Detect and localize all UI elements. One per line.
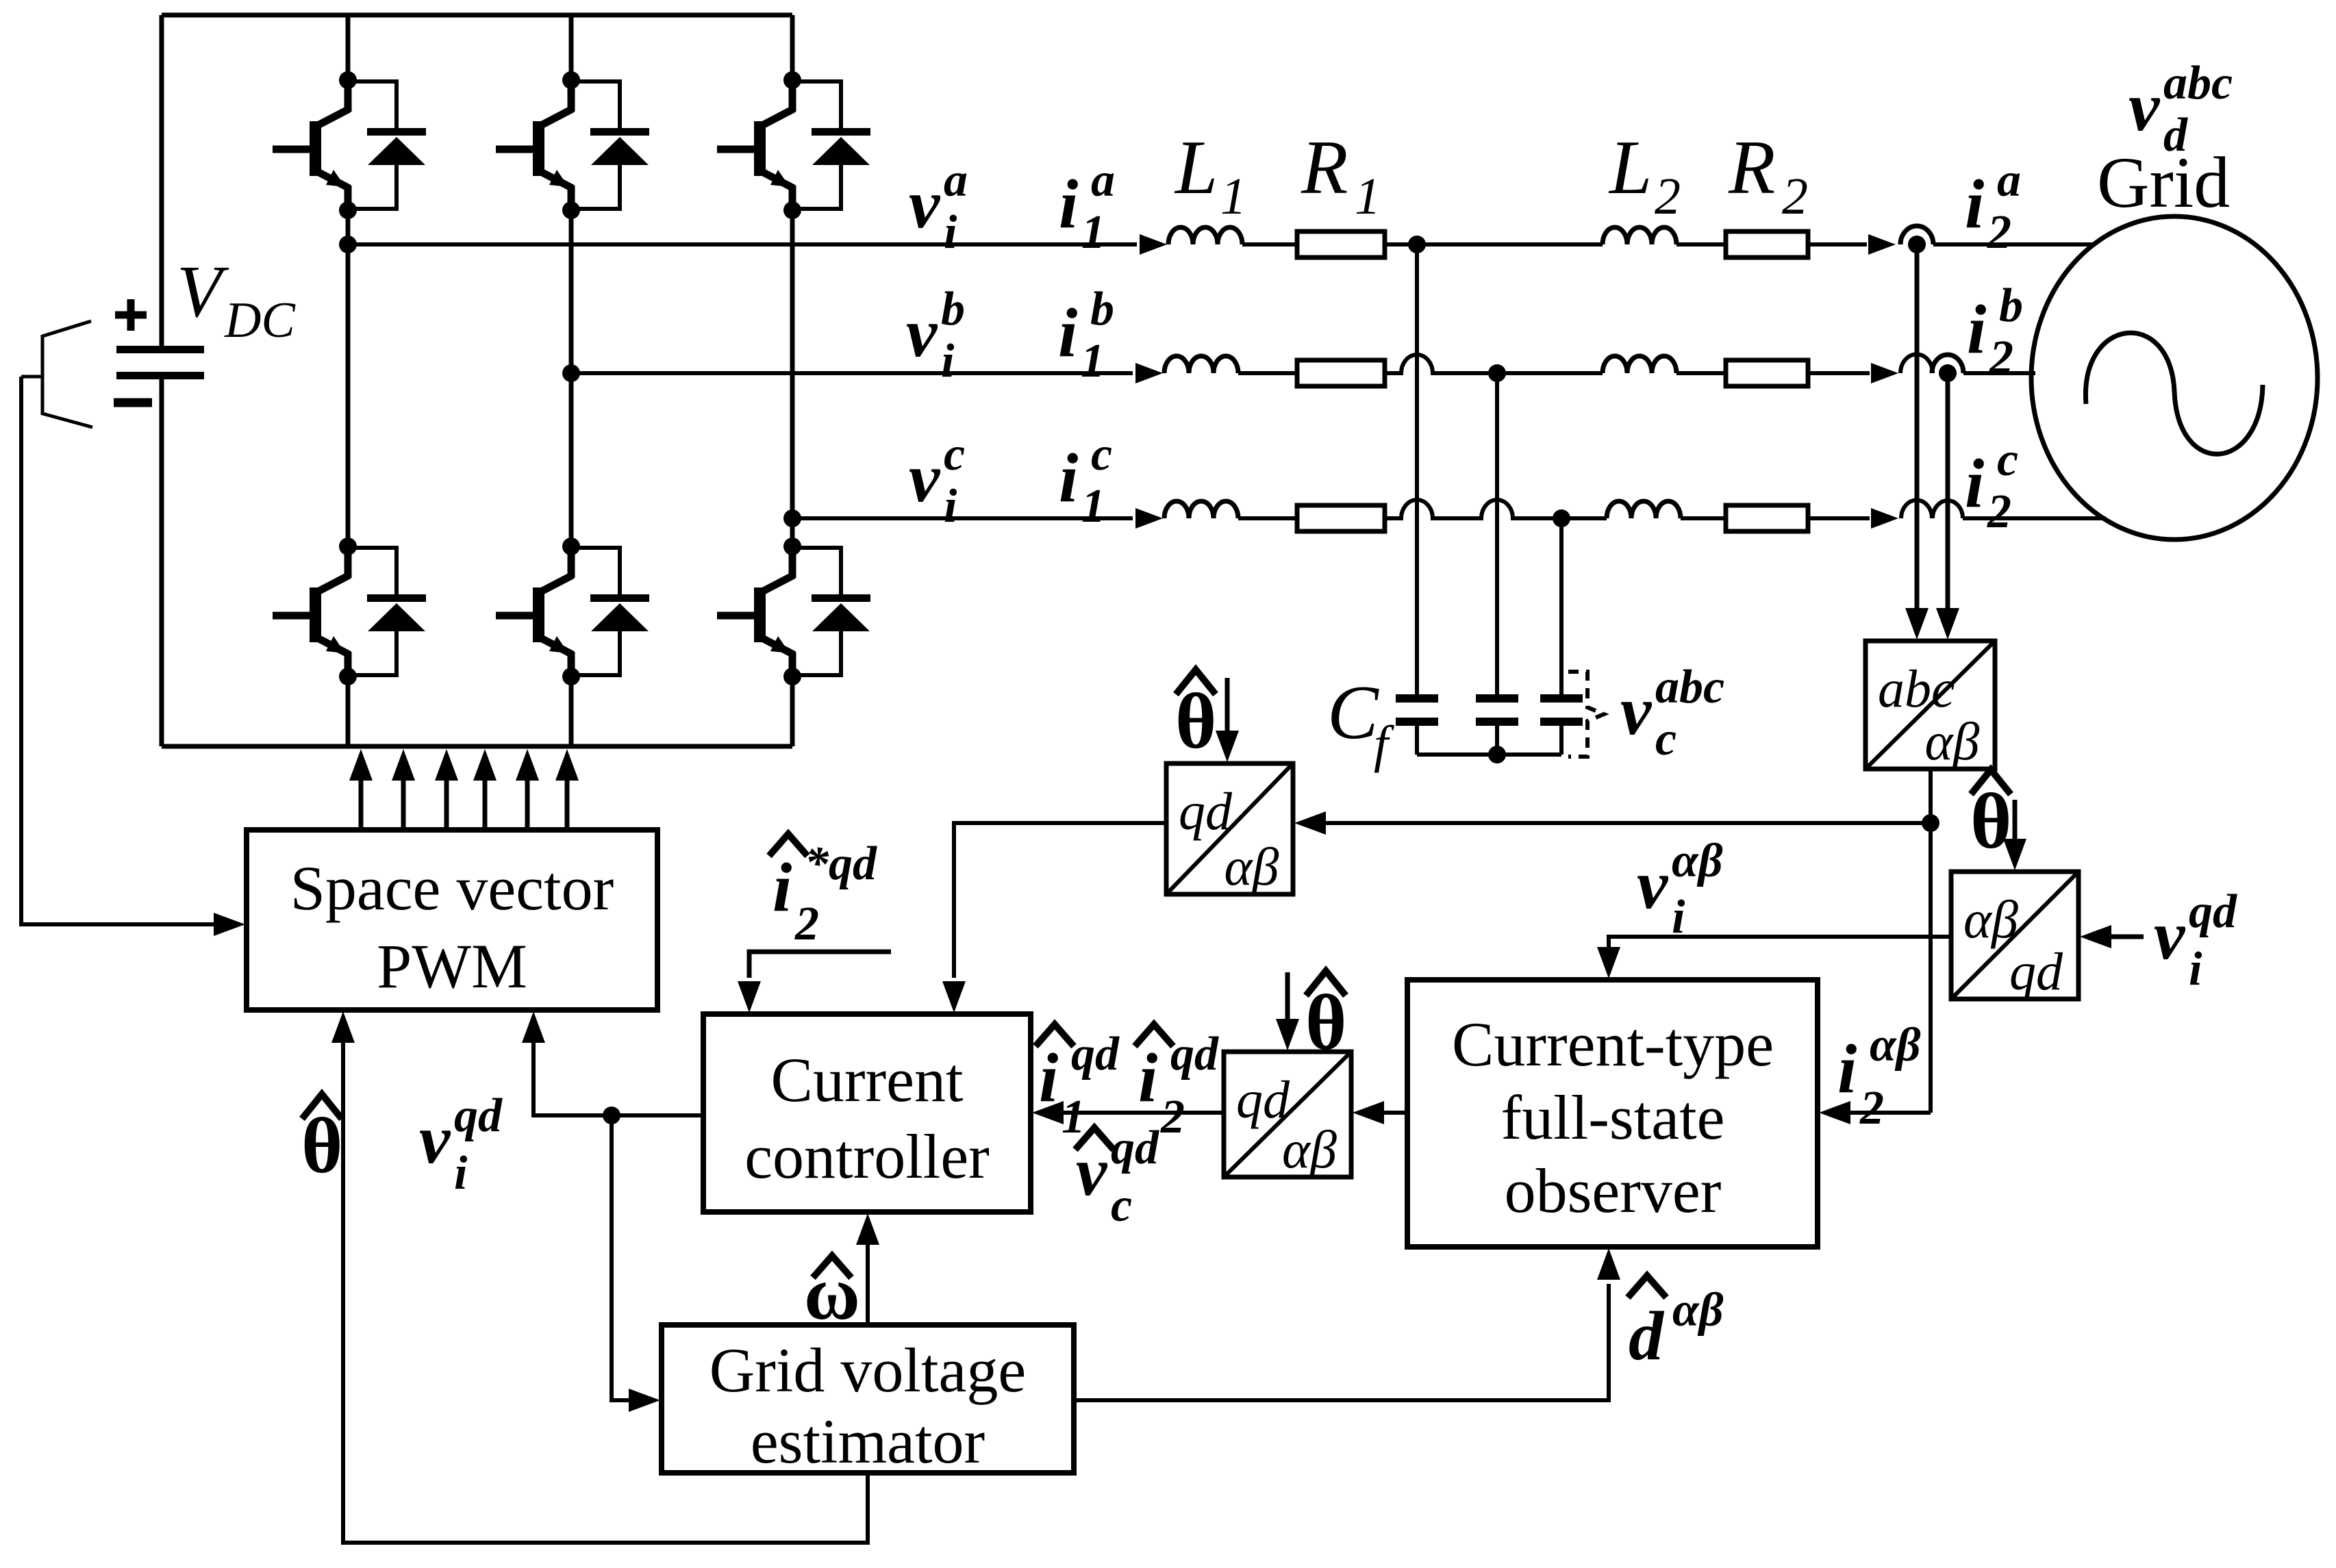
resistor R1 phase a bbox=[1297, 231, 1385, 257]
svg-text:2: 2 bbox=[1160, 1091, 1185, 1143]
svg-text:L: L bbox=[1608, 125, 1652, 210]
svg-text:i: i bbox=[1059, 166, 1078, 243]
transform block qd to alpha-beta (i2 feedback) bbox=[1166, 763, 1293, 896]
svg-text:c: c bbox=[1997, 433, 2018, 486]
wire phase b L1-R1 bbox=[1238, 371, 1297, 375]
label i_1^b bbox=[1058, 283, 1114, 388]
wire phase b node-L2 bbox=[1497, 371, 1603, 375]
svg-text:αβ: αβ bbox=[1963, 889, 2018, 949]
wire leg c upper bbox=[790, 15, 795, 80]
node abc-block output junction bbox=[1922, 814, 1939, 832]
wire gate signal 3 from PWM bbox=[435, 749, 458, 830]
wire node c to Cf bbox=[1559, 518, 1563, 694]
inductor L2 phase b bbox=[1603, 356, 1676, 373]
svg-text:v: v bbox=[2128, 68, 2161, 146]
svg-text:i: i bbox=[1138, 1039, 1157, 1117]
svg-text:v: v bbox=[909, 166, 941, 243]
label v_d^abc bbox=[2128, 57, 2233, 162]
wire phase b L2-R2 bbox=[1676, 371, 1726, 375]
wire observer to qdab2 bbox=[1353, 1101, 1407, 1124]
transform block alpha-beta to qd bbox=[1951, 872, 2078, 1001]
label + polarity bbox=[115, 299, 147, 331]
svg-text:abc: abc bbox=[2163, 57, 2233, 110]
svg-text:full-state: full-state bbox=[1501, 1083, 1725, 1152]
label i_2^a bbox=[1965, 154, 2021, 259]
label v_i^a bbox=[909, 154, 968, 259]
svg-text:i: i bbox=[2189, 943, 2202, 996]
wire phase b R2 to sensor with hop bbox=[1808, 354, 1933, 383]
wire i_2*qd stub into controller bbox=[738, 952, 891, 1013]
block space vector PWM bbox=[247, 830, 657, 1010]
svg-text:qd: qd bbox=[2189, 885, 2237, 938]
label v_i^b bbox=[906, 283, 965, 388]
transistor Q1 with antiparallel diode D1 (top, phase a) bbox=[273, 71, 426, 219]
svg-text:qd: qd bbox=[1170, 1028, 1219, 1080]
svg-text:i: i bbox=[1672, 891, 1685, 944]
svg-text:i: i bbox=[1039, 1039, 1058, 1117]
svg-text:L: L bbox=[1174, 125, 1218, 210]
wire phase c R2 to grid with hops bbox=[1808, 500, 2106, 529]
wire abc-block output down bbox=[1929, 769, 1933, 1113]
node i2a measurement bbox=[1908, 236, 1926, 253]
svg-text:1: 1 bbox=[1081, 480, 1105, 533]
svg-text:abc: abc bbox=[1878, 659, 1955, 718]
svg-text:controller: controller bbox=[744, 1122, 990, 1191]
block grid voltage estimator bbox=[662, 1325, 1074, 1476]
wire leg b middle bbox=[569, 212, 574, 546]
svg-text:αβ: αβ bbox=[1282, 1120, 1337, 1179]
wire Cf common bus bbox=[1417, 753, 1561, 757]
current sensor i2b hump bbox=[1932, 355, 1963, 373]
wire qdab2 to current controller bbox=[1032, 1101, 1224, 1124]
wire phase a inverter to L1 bbox=[348, 234, 1167, 255]
wire node a to Cf bbox=[1415, 244, 1419, 694]
svg-text:v: v bbox=[2154, 897, 2186, 974]
svg-text:c: c bbox=[1091, 428, 1112, 481]
wire leg a lower bbox=[346, 678, 351, 746]
svg-text:C: C bbox=[1327, 670, 1379, 755]
wire phase a L2-R2 bbox=[1676, 242, 1726, 246]
svg-text:i: i bbox=[944, 206, 957, 259]
label i_1^a bbox=[1059, 154, 1115, 259]
svg-text:b: b bbox=[1090, 283, 1114, 336]
svg-text:i: i bbox=[944, 480, 957, 533]
svg-text:2: 2 bbox=[1859, 1082, 1884, 1135]
svg-text:qd: qd bbox=[1071, 1028, 1120, 1080]
wire leg c lower bbox=[790, 678, 795, 746]
node v_i^qd junction bbox=[603, 1107, 620, 1124]
wire v_i^qd controller to PWM bbox=[522, 1011, 703, 1115]
node phase c output bbox=[783, 509, 801, 527]
svg-text:αβ: αβ bbox=[1925, 711, 1980, 771]
svg-text:1: 1 bbox=[1220, 168, 1246, 225]
wire phase c inverter to L1 bbox=[792, 508, 1163, 529]
inductor L1 phase b bbox=[1164, 356, 1238, 373]
svg-text:R: R bbox=[1728, 125, 1775, 210]
wire leg b upper bbox=[569, 15, 574, 80]
wire DC+ top bus bbox=[162, 13, 792, 18]
wire gate signal 5 from PWM bbox=[516, 749, 539, 830]
wire d-hat estimator to observer bbox=[1074, 1248, 1620, 1400]
svg-text:DC: DC bbox=[224, 292, 296, 349]
svg-text:αβ: αβ bbox=[1672, 1284, 1724, 1337]
wire phase c L2-R2 bbox=[1681, 516, 1726, 520]
svg-text:αβ: αβ bbox=[1224, 837, 1279, 896]
label i_2^b bbox=[1967, 279, 2023, 384]
svg-text:c: c bbox=[1655, 713, 1676, 766]
resistor R1 phase b bbox=[1297, 360, 1385, 386]
svg-text:a: a bbox=[1997, 154, 2021, 207]
label R_2 bbox=[1728, 125, 1808, 225]
svg-text:1: 1 bbox=[1355, 168, 1381, 225]
svg-text:Current-type: Current-type bbox=[1452, 1009, 1774, 1079]
wire gate signal 4 from PWM bbox=[473, 749, 497, 830]
label d-hat-alphabeta bbox=[1628, 1276, 1724, 1375]
svg-text:v: v bbox=[906, 294, 938, 372]
svg-text:estimator: estimator bbox=[751, 1406, 985, 1476]
wire leg a middle bbox=[346, 212, 351, 546]
svg-text:Grid: Grid bbox=[2097, 142, 2230, 223]
transistor Q4 with antiparallel diode D4 (bottom, phase a) bbox=[273, 538, 426, 685]
resistor R2 phase c bbox=[1726, 505, 1808, 531]
svg-text:v: v bbox=[1637, 846, 1669, 924]
wire junction to qd-block-1 bbox=[1294, 811, 1931, 835]
wire theta-hat arrow into qdab1 bbox=[1216, 678, 1239, 762]
svg-text:a: a bbox=[944, 154, 968, 207]
wire leg a upper bbox=[346, 15, 351, 80]
svg-text:1: 1 bbox=[1081, 335, 1105, 388]
capacitor Cf phase a bbox=[1396, 694, 1438, 755]
wire i2alphabeta into observer bbox=[1819, 1101, 1931, 1124]
wire phase b to grid bbox=[1963, 371, 2035, 375]
block current-type full-state observer bbox=[1407, 980, 1818, 1247]
node phase a output bbox=[339, 236, 357, 253]
svg-text:c: c bbox=[944, 428, 965, 481]
label L_1 bbox=[1174, 125, 1246, 225]
block current controller bbox=[703, 1014, 1031, 1212]
label i1qd-hat i2qd-hat bbox=[1035, 1024, 1219, 1143]
svg-text:αβ: αβ bbox=[1672, 835, 1723, 887]
wire i2b sensor to abc-block bbox=[1936, 373, 1959, 640]
svg-text:observer: observer bbox=[1505, 1156, 1722, 1226]
svg-text:c: c bbox=[1111, 1179, 1132, 1232]
label i_2^alphabeta bbox=[1837, 1019, 1921, 1135]
wire theta-hat arrow into qdab2 bbox=[1276, 972, 1299, 1050]
wire phase a R2-sensor bbox=[1808, 234, 1896, 255]
wire phase c node-L2 bbox=[1561, 516, 1607, 520]
svg-text:αβ: αβ bbox=[1870, 1019, 1921, 1072]
svg-text:2: 2 bbox=[1989, 331, 2013, 384]
svg-text:v: v bbox=[419, 1101, 451, 1178]
transistor Q5 with antiparallel diode D5 (bottom, phase b) bbox=[496, 538, 649, 685]
svg-text:Current: Current bbox=[770, 1045, 963, 1115]
svg-text:2: 2 bbox=[794, 898, 819, 950]
label theta-hat at abqd bbox=[1970, 770, 2012, 865]
wire i2qd-hat from qd1 into controller bbox=[942, 823, 1166, 1013]
svg-text:b: b bbox=[1999, 279, 2023, 332]
svg-text:i: i bbox=[1837, 1030, 1857, 1108]
inductor L1 phase c bbox=[1164, 501, 1238, 518]
svg-text:2: 2 bbox=[1655, 168, 1681, 225]
wire leg c middle bbox=[790, 212, 795, 546]
grid voltage source circle bbox=[2031, 216, 2318, 540]
probe bracket on V_DC bbox=[21, 321, 92, 427]
label v_i^alphabeta bbox=[1637, 835, 1723, 944]
svg-text:a: a bbox=[1091, 154, 1115, 207]
wire V_DC sense to PWM bbox=[21, 377, 245, 936]
resistor R1 phase c bbox=[1297, 505, 1385, 531]
label omega-hat bbox=[804, 1251, 860, 1336]
wire v_i^qd into abqd bbox=[2080, 925, 2144, 948]
svg-text:qd: qd bbox=[2009, 941, 2063, 1001]
svg-text:ω: ω bbox=[804, 1251, 860, 1336]
label v_i^qd at PWM bbox=[419, 1089, 503, 1200]
label - polarity bbox=[114, 399, 152, 407]
label Grid bbox=[2097, 142, 2230, 223]
label v_c^abc bbox=[1620, 661, 1724, 766]
svg-text:b: b bbox=[941, 283, 965, 336]
svg-text:i: i bbox=[1967, 291, 1986, 368]
wire gate signal 2 from PWM bbox=[392, 749, 415, 830]
transistor Q3 with antiparallel diode D3 (top, phase c) bbox=[717, 71, 870, 219]
svg-text:i: i bbox=[454, 1147, 468, 1200]
svg-text:i: i bbox=[1965, 166, 1984, 243]
wire phase c L1-R1 bbox=[1238, 516, 1297, 520]
svg-text:qd: qd bbox=[1179, 781, 1233, 841]
svg-text:V: V bbox=[177, 251, 229, 333]
svg-text:2: 2 bbox=[1782, 168, 1808, 225]
label i_2^c bbox=[1965, 433, 2018, 538]
wire omega-hat estimator to controller bbox=[856, 1213, 879, 1325]
label i_1^c bbox=[1059, 428, 1112, 533]
bracket v_c^abc bbox=[1568, 672, 1604, 757]
svg-text:Grid voltage: Grid voltage bbox=[709, 1335, 1026, 1405]
svg-text:PWM: PWM bbox=[377, 931, 527, 1001]
wire DC- bottom bus bbox=[162, 744, 792, 749]
wire phase b inverter to L1 bbox=[571, 363, 1163, 383]
label theta-hat at qdab2 bbox=[1305, 971, 1347, 1067]
label v_i^c bbox=[909, 428, 965, 533]
wire i2a sensor to abc-block bbox=[1905, 244, 1929, 640]
resistor R2 phase a bbox=[1726, 231, 1808, 257]
transform block qd to alpha-beta (observer output) bbox=[1224, 1052, 1351, 1179]
svg-text:i: i bbox=[1059, 440, 1078, 517]
label v_c^qd-hat bbox=[1075, 1122, 1159, 1232]
svg-text:d: d bbox=[1629, 1298, 1665, 1375]
svg-text:v: v bbox=[909, 440, 941, 517]
label v_i^qd right bbox=[2154, 885, 2237, 996]
inductor L2 phase c bbox=[1607, 501, 1681, 518]
wire junction to grid voltage estimator bbox=[612, 1115, 660, 1412]
svg-text:i: i bbox=[1058, 294, 1077, 372]
svg-text:i: i bbox=[773, 849, 792, 926]
wire theta-hat feedback into PWM bbox=[331, 1011, 868, 1543]
inductor L1 phase a bbox=[1168, 227, 1242, 244]
transform block abc to alpha-beta bbox=[1866, 641, 1995, 771]
wire DC+ riser bbox=[160, 15, 164, 348]
capacitor Cf phase c bbox=[1540, 694, 1583, 755]
node phase b output bbox=[562, 364, 580, 382]
label V_DC bbox=[177, 251, 296, 349]
node Cf star point bbox=[1488, 746, 1506, 763]
svg-text:2: 2 bbox=[1987, 206, 2011, 259]
svg-text:qd: qd bbox=[1111, 1122, 1159, 1174]
svg-text:2: 2 bbox=[1987, 485, 2011, 538]
wire node b to Cf bbox=[1495, 373, 1499, 694]
label theta-hat at PWM bbox=[301, 1094, 343, 1190]
capacitor Cf phase b bbox=[1476, 694, 1518, 755]
svg-text:qd: qd bbox=[454, 1089, 503, 1142]
label C_f bbox=[1327, 670, 1394, 773]
wire theta-hat arrow into abqd bbox=[2003, 800, 2026, 870]
wire phase b R1 to node b with hop bbox=[1385, 355, 1497, 373]
label theta-hat at qdab1 bbox=[1175, 670, 1217, 766]
wire DC- drop bbox=[160, 379, 164, 746]
wire phase a node-L2 bbox=[1417, 242, 1603, 246]
wire gate signal 6 from PWM bbox=[555, 749, 579, 830]
label i_2*qd reference bbox=[769, 834, 877, 950]
capacitor DC-link C_dc plates bbox=[116, 346, 204, 379]
grid sine wave bbox=[2085, 333, 2263, 454]
svg-text:1: 1 bbox=[1081, 206, 1105, 259]
label R_1 bbox=[1301, 125, 1381, 225]
svg-text:R: R bbox=[1301, 125, 1348, 210]
label L_2 bbox=[1608, 125, 1681, 225]
wire phase a R1-node bbox=[1385, 242, 1417, 246]
inductor L2 phase a bbox=[1603, 227, 1676, 244]
node a (filter tap) bbox=[1408, 236, 1426, 253]
transistor Q6 with antiparallel diode D6 (bottom, phase c) bbox=[717, 538, 870, 685]
wire phase a L1-R1 bbox=[1242, 242, 1297, 246]
svg-text:abc: abc bbox=[1655, 661, 1724, 713]
svg-text:i: i bbox=[1965, 445, 1984, 522]
svg-text:i: i bbox=[941, 335, 955, 388]
svg-text:Space vector: Space vector bbox=[290, 853, 614, 923]
node i2b measurement bbox=[1939, 364, 1957, 382]
current sensor i2a hump bbox=[1900, 226, 1933, 244]
node c (filter tap) bbox=[1553, 509, 1570, 527]
wire gate signal 1 from PWM bbox=[349, 749, 373, 830]
svg-text:v: v bbox=[1620, 672, 1653, 750]
svg-text:*qd: *qd bbox=[805, 837, 877, 890]
wire phase c R1 to node c with hops bbox=[1385, 500, 1561, 518]
resistor R2 phase b bbox=[1726, 360, 1808, 386]
wire leg b lower bbox=[569, 678, 574, 746]
transistor Q2 with antiparallel diode D2 (top, phase b) bbox=[496, 71, 649, 219]
wire phase a to grid bbox=[1933, 242, 2096, 246]
wire v_i^alphabeta to observer bbox=[1597, 937, 1951, 978]
node b (filter tap) bbox=[1488, 364, 1506, 382]
